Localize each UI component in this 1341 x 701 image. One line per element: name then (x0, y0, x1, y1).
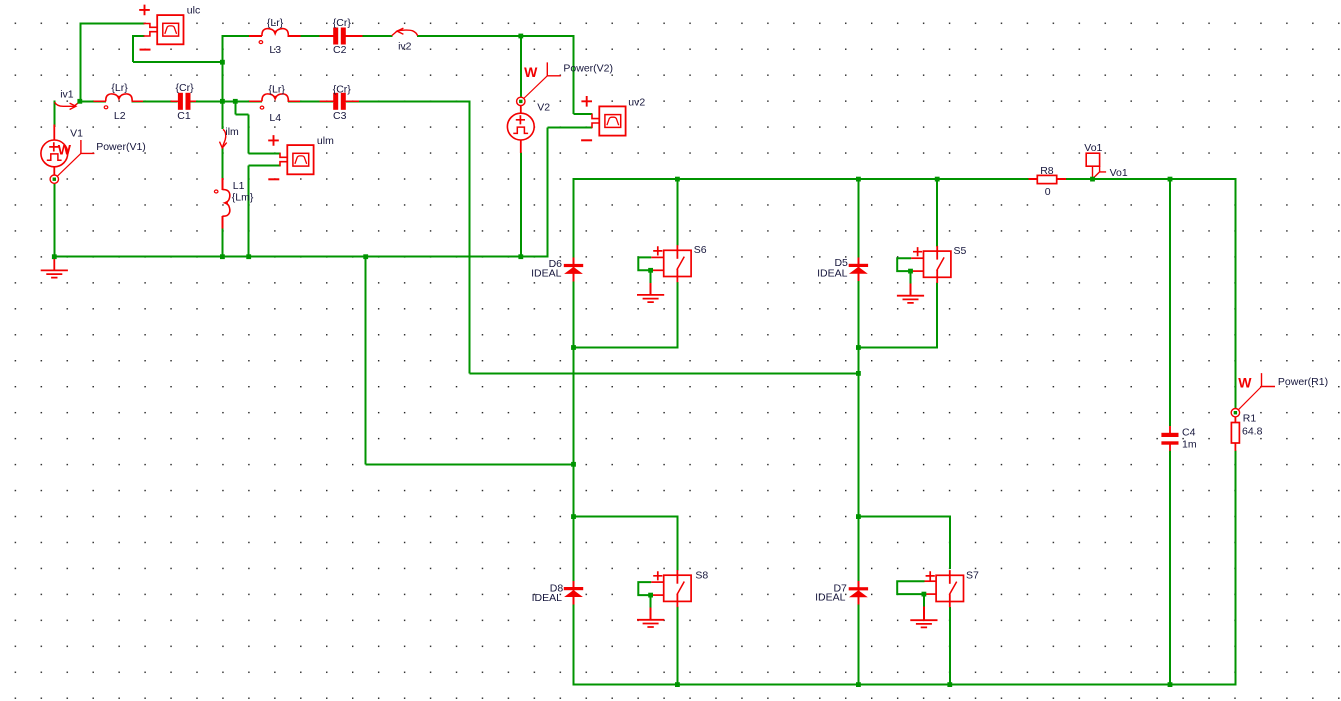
wire D8 leg lower (573, 604, 575, 686)
node S8 bottom rail (675, 682, 680, 687)
svg-text:IDEAL: IDEAL (531, 268, 562, 280)
node S7 bottom rail (947, 682, 952, 687)
svg-text:IDEAL: IDEAL (815, 591, 846, 603)
svg-text:W: W (524, 64, 538, 80)
svg-text:{Lr}: {Lr} (111, 82, 128, 94)
wire S8 gate hook (638, 582, 651, 595)
power probe Power(V1) (57, 153, 81, 176)
svg-text:Power(R1): Power(R1) (1278, 376, 1328, 388)
wire iv1 node to ulc riser (79, 23, 81, 102)
wire S7 top link (858, 516, 950, 518)
ground (S8 gate) (637, 620, 664, 627)
svg-text:uv2: uv2 (628, 97, 645, 109)
wire S6 gate return drop (650, 270, 652, 283)
switch S7 (949, 570, 951, 584)
node D7 bottom rail (856, 682, 861, 687)
voltage source V2 (520, 106, 522, 114)
node ground rail left (52, 254, 57, 259)
node A ulc minus junction (220, 60, 225, 65)
wire ulm minus drop (248, 166, 250, 258)
wire row2 left segment (221, 35, 262, 37)
svg-text:{Cr}: {Cr} (333, 17, 352, 29)
node ulm minus rail junction (246, 254, 251, 259)
resistor R8 (1029, 178, 1038, 180)
svg-text:R1: R1 (1243, 413, 1257, 425)
node S8 gate junction (648, 593, 653, 598)
wire trunk ilm to L1 (221, 148, 223, 179)
wire S8 leg upper (676, 517, 678, 571)
svg-text:Power(V1): Power(V1) (96, 141, 146, 153)
svg-text:W: W (1238, 375, 1252, 391)
ground (S6 gate) (637, 295, 664, 302)
wire S6 mid link (574, 347, 679, 349)
wire R1 leg lower (1234, 451, 1236, 686)
node S5 gate junction (908, 269, 913, 274)
svg-text:Power(V2): Power(V2) (563, 63, 613, 75)
wire top bridge rail right (1057, 178, 1236, 180)
wire S8 gate return drop (650, 595, 652, 608)
wire row2 C2-iv2 segment (346, 35, 393, 37)
capacitor C4 (1169, 426, 1171, 433)
svg-text:R8: R8 (1040, 165, 1054, 177)
wire ulc minus stub (133, 35, 145, 37)
wire D6 leg upper (573, 178, 575, 258)
wire S6 leg upper (676, 178, 678, 246)
node C4 bottom rail (1168, 682, 1173, 687)
wire S6 gate hook (638, 257, 651, 270)
svg-text:L4: L4 (269, 112, 281, 124)
wire V2 top from row2 (520, 35, 522, 97)
svg-text:IDEAL: IDEAL (532, 592, 563, 604)
node H14 junction (856, 371, 861, 376)
wire ulc plus top (80, 23, 144, 25)
node S7 gate junction (922, 592, 927, 597)
wire row2 L3-C2 segment (288, 35, 333, 37)
switch S5 (936, 246, 938, 260)
wire ulc minus to node A (133, 61, 223, 63)
node ulm tap junction (233, 99, 238, 104)
node D6 mid junction (571, 345, 576, 350)
wire S7 leg upper (949, 517, 951, 569)
wire H15 to D-leg (366, 463, 575, 465)
wire tap rail to H15 (365, 257, 367, 465)
svg-text:V1: V1 (70, 128, 83, 140)
wire trunk L1 to rail (221, 228, 223, 257)
capacitor C2 (320, 35, 334, 37)
svg-text:ilm: ilm (225, 126, 239, 138)
resistor R1 (1234, 417, 1236, 423)
voltage probe ulm (287, 145, 313, 174)
diode D7 (857, 581, 859, 605)
wire vertical trunk upper (221, 35, 223, 129)
wire V1 bottom to ground rail (53, 183, 55, 257)
wire ulc minus drop (132, 35, 134, 62)
svg-text:IDEAL: IDEAL (817, 268, 848, 280)
ground (V1) (53, 257, 55, 271)
wire main row L2-C1 (132, 100, 178, 102)
voltage source V1 (53, 125, 55, 142)
wire V2 bottom to rail (520, 152, 522, 257)
svg-text:C3: C3 (333, 110, 347, 122)
svg-text:S5: S5 (954, 245, 967, 257)
wire S7 leg lower (949, 607, 951, 686)
wire main row L4-C3 (288, 100, 333, 102)
svg-text:L2: L2 (114, 110, 126, 122)
diode D6 (573, 258, 575, 282)
wire S5 gate return drop (910, 271, 912, 284)
svg-text:Vo1: Vo1 (1110, 167, 1128, 179)
wire ulm plus drop1 (234, 100, 236, 114)
svg-text:W: W (58, 142, 72, 158)
node S8 link junction (571, 514, 576, 519)
switch S8 (676, 570, 678, 584)
current probe ilm (223, 129, 226, 147)
inductor L4 (249, 100, 262, 102)
node S5 column top (935, 177, 940, 182)
svg-text:S7: S7 (966, 570, 979, 582)
node D5 mid junction (856, 345, 861, 350)
svg-text:{Cr}: {Cr} (176, 82, 195, 94)
node V2 bottom rail junction (518, 254, 523, 259)
wire H14 across (469, 372, 859, 374)
wire S8 top link (574, 516, 679, 518)
node V2 top junction (518, 34, 523, 39)
svg-text:{Cr}: {Cr} (333, 84, 352, 96)
wire uv2 plus horiz (574, 113, 593, 115)
svg-text:64.8: 64.8 (1242, 426, 1263, 438)
svg-text:Vo1: Vo1 (1084, 142, 1102, 154)
ground (S5 gate) (897, 296, 924, 303)
svg-text:S6: S6 (694, 244, 707, 256)
node iv1-ulc junction (77, 99, 82, 104)
svg-text:0: 0 (1045, 186, 1051, 198)
wire top bridge rail left (574, 178, 1038, 180)
wire bottom rail (574, 684, 1237, 686)
power probe Power(R1) (1238, 387, 1261, 410)
switch S6 (676, 245, 678, 259)
svg-text:iv1: iv1 (60, 89, 74, 101)
current probe iv2 (392, 30, 418, 36)
svg-text:ulm: ulm (317, 135, 334, 147)
svg-text:{Lm}: {Lm} (232, 192, 254, 204)
wire row2 iv2 to corner (417, 35, 575, 37)
svg-text:L3: L3 (269, 44, 281, 56)
svg-text:ulc: ulc (187, 4, 200, 16)
wire uv2 plus drop (573, 36, 575, 114)
inductor L2 (94, 100, 106, 102)
wire S5 gate hook (897, 258, 911, 271)
power probe Power(V2) (524, 76, 548, 99)
wire S7 gate hook (897, 581, 924, 594)
wire S5 leg lower (936, 283, 938, 348)
node D6 top of bridge (675, 177, 680, 182)
voltage probe uv2 (599, 106, 625, 135)
wire D5-D7 leg middle (857, 281, 859, 582)
ground (S7 gate) (910, 620, 937, 627)
node Vo1 junction (1090, 177, 1095, 182)
current probe iv1 (55, 102, 80, 107)
wire D6-D8 leg middle (573, 281, 575, 581)
node S7 link junction (856, 514, 861, 519)
wire main row C3 to corner (346, 100, 471, 102)
wire ulm minus horiz (249, 165, 281, 167)
wire ulm plus horiz (249, 152, 281, 154)
wire C4 leg lower (1169, 451, 1171, 686)
svg-text:{Lr}: {Lr} (267, 17, 284, 29)
wire main row C1 to L4 (191, 100, 262, 102)
capacitor C3 (320, 100, 334, 102)
node trunk main-row junction (220, 99, 225, 104)
svg-text:{Lr}: {Lr} (269, 84, 286, 96)
wire R1 leg upper (1234, 178, 1236, 409)
svg-text:C4: C4 (1182, 426, 1196, 438)
wire S8 leg lower (676, 607, 678, 686)
wire ulm plus jog (235, 113, 248, 115)
node tap rail junction (363, 254, 368, 259)
node D5 column top (856, 177, 861, 182)
capacitor C1 (171, 100, 179, 102)
svg-text:iv2: iv2 (398, 40, 412, 52)
node S6 gate junction (648, 268, 653, 273)
svg-text:S8: S8 (695, 570, 708, 582)
wire ground rail (53, 256, 548, 258)
svg-text:C1: C1 (177, 110, 191, 122)
inductor L1 (221, 178, 223, 190)
voltage probe ulc (157, 15, 183, 44)
inductor L3 (249, 35, 262, 37)
wire S6 leg lower (676, 282, 678, 348)
node C4 column top (1168, 177, 1173, 182)
wire uv2 minus horiz (547, 127, 592, 129)
node trunk rail junction (220, 254, 225, 259)
diode D8 (573, 581, 575, 605)
wire main row node-L2 (80, 100, 106, 102)
wire V1 top lead (53, 100, 55, 127)
wire S5 leg upper (936, 178, 938, 246)
svg-text:L1: L1 (233, 180, 245, 192)
wire S7 gate return drop (923, 594, 925, 607)
wire ulm plus drop2 (248, 114, 250, 153)
net label flag Vo1 (1086, 153, 1099, 166)
svg-text:1m: 1m (1182, 438, 1197, 450)
wire D5 leg upper (857, 178, 859, 258)
svg-text:C2: C2 (333, 44, 347, 56)
wire C4 leg upper (1169, 178, 1171, 426)
diode D5 (857, 258, 859, 282)
wire C3 drop (468, 100, 470, 373)
wire D7 leg lower (857, 604, 859, 685)
svg-text:V2: V2 (537, 102, 550, 114)
wire uv2 minus drop (546, 128, 548, 258)
wire S5 mid link (858, 347, 938, 349)
node H15 junction (571, 462, 576, 467)
